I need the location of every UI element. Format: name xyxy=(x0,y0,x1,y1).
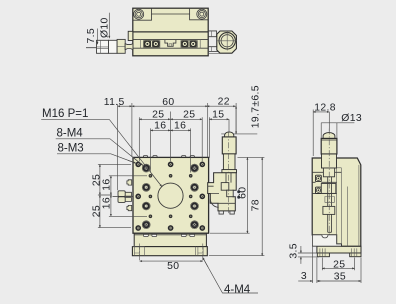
svg-text:22: 22 xyxy=(218,96,230,107)
front view: M4 counterbore R1 xyxy=(191,164,199,172)
front view: base block xyxy=(132,247,207,256)
side view: right foot xyxy=(350,253,361,257)
top view: knob circle outer xyxy=(219,33,235,49)
top view: center adjust notch xyxy=(165,40,176,47)
side view: step line xyxy=(337,167,342,169)
svg-text:12.8: 12.8 xyxy=(314,102,336,113)
front view: top rail bump 4 xyxy=(190,156,194,158)
top view: carriage bottom line xyxy=(133,47,208,49)
bracket: body main xyxy=(208,173,237,211)
front view: M4 counterbore R3 xyxy=(191,202,199,210)
top view: carriage outline box xyxy=(141,40,201,49)
top view: micrometer sleeve xyxy=(117,39,125,53)
dim 25 lower left xyxy=(99,195,101,228)
top view: right end block xyxy=(190,14,209,20)
front view: left stop pad tab lower xyxy=(127,205,132,210)
top view: slab split line xyxy=(133,31,208,33)
svg-text:15: 15 xyxy=(212,110,224,121)
bracket: spindle nut xyxy=(227,190,234,197)
front view: base right notch xyxy=(195,247,203,256)
front view: M4 counterbore L4 xyxy=(142,221,150,229)
svg-text:16: 16 xyxy=(102,197,113,209)
top view: right lower arm xyxy=(208,47,219,52)
svg-text:60: 60 xyxy=(238,187,249,199)
side view: bottom plate xyxy=(317,246,361,253)
side view: main body xyxy=(312,158,361,246)
top view: carriage pair plate left xyxy=(144,41,160,48)
dim 50 bottom xyxy=(140,260,203,262)
dim 7.5 line xyxy=(96,29,98,45)
top view: micrometer ratchet knob xyxy=(97,40,109,53)
front view: left adjuster screw upper xyxy=(125,192,131,196)
bracket: micrometer knob xyxy=(222,137,236,154)
front view: dowel pin row2 b xyxy=(189,195,193,199)
top view: carriage top line xyxy=(133,39,208,41)
side view: recess bump xyxy=(322,235,328,238)
svg-text:M16 P=1: M16 P=1 xyxy=(42,108,88,120)
right ext lines xyxy=(209,157,265,255)
dim 35 ext xyxy=(313,247,361,283)
dim 22 xyxy=(207,105,236,107)
top view: micrometer thimble xyxy=(109,40,118,53)
front view: top rail bump 1 xyxy=(143,156,147,158)
side view: spindle clamp block xyxy=(323,206,335,214)
top view: carriage clamp screw 2 xyxy=(152,41,159,47)
dim 25 left xyxy=(139,118,170,120)
dim 12.8 xyxy=(313,111,329,113)
top view: knob circle inner xyxy=(221,35,233,47)
dim 25 right xyxy=(170,118,202,120)
top view: carriage clamp screw 4 xyxy=(190,41,197,47)
front view: dowel pin row3 b xyxy=(169,215,173,219)
front view: M3 bottom-mid screw xyxy=(168,225,173,230)
front view: saddle top line xyxy=(134,234,206,236)
front view: saddle white notches xyxy=(144,234,149,236)
svg-text:25: 25 xyxy=(152,110,164,121)
bracket: spindle column xyxy=(226,173,231,183)
front view: left adjuster screw lower xyxy=(125,198,131,202)
front view: dowel pin row3 a xyxy=(149,215,153,219)
side view: spindle step xyxy=(325,197,335,203)
bracket: lower tabs xyxy=(219,211,234,214)
front view: dowel pin row2 a xyxy=(149,195,153,199)
side view: white recess under carriage xyxy=(312,235,341,246)
bracket: side screw dot upper xyxy=(237,190,240,193)
left ext lines xyxy=(98,164,147,227)
bracket: micrometer centerline xyxy=(228,132,230,214)
svg-text:8-M4: 8-M4 xyxy=(57,128,84,140)
dim dia13 leader xyxy=(321,122,354,124)
front view: top rail bump 3 xyxy=(182,156,186,158)
top view: carriage pair plate right xyxy=(181,41,197,48)
front view: M3 top-mid screw xyxy=(168,162,173,167)
top view: knob crosshair xyxy=(218,31,237,50)
dim 3.5 arrows xyxy=(300,246,302,253)
top view: knob block (chamfered) xyxy=(217,31,237,53)
svg-text:3.5: 3.5 xyxy=(288,243,299,259)
top view: carriage clamp screw 1 xyxy=(144,41,151,47)
svg-text:8-M3: 8-M3 xyxy=(58,143,84,155)
dim 25 upper left xyxy=(99,164,101,195)
front view: base mounting centerline left xyxy=(139,244,141,262)
svg-text:25: 25 xyxy=(333,259,345,270)
svg-text:4-M4: 4-M4 xyxy=(224,284,251,296)
side view: spindle column xyxy=(328,177,332,233)
bracket: micrometer flange xyxy=(222,170,237,173)
top view: left mount tab xyxy=(128,31,133,40)
front view: M3 corner screw TR xyxy=(200,162,205,167)
dim 16 lower left xyxy=(110,195,112,216)
front view: M4 counterbore L2 xyxy=(142,183,150,191)
front view: base left notch xyxy=(132,247,144,256)
front view: base mounting centerline right xyxy=(202,244,204,262)
bracket: fillet arc xyxy=(210,199,218,207)
svg-text:19.7±6.5: 19.7±6.5 xyxy=(251,85,262,128)
dim 3 xyxy=(298,280,312,282)
dim 11.5 xyxy=(118,105,132,107)
dim 15 xyxy=(209,118,229,120)
svg-text:50: 50 xyxy=(167,261,179,272)
front view: M3 corner screw BL xyxy=(136,225,141,230)
front view: top rail bump 2 xyxy=(153,156,157,158)
bracket: micrometer knob top cap xyxy=(225,132,234,137)
front view: saddle band xyxy=(134,233,206,246)
dim 35 xyxy=(317,280,361,282)
front view: dowel pin row1 a xyxy=(149,174,153,178)
side view: clamp screw lower xyxy=(316,187,322,193)
top view: carriage clamp screw 3 xyxy=(181,41,188,47)
side view: micrometer knob cap xyxy=(323,133,335,139)
front view: dowel pin row1 b xyxy=(169,174,173,178)
svg-text:16: 16 xyxy=(102,178,113,190)
front view: M3 corner screw BR xyxy=(200,225,205,230)
side view: column split lines xyxy=(337,158,359,246)
top view: main body slab xyxy=(133,8,208,56)
svg-text:3: 3 xyxy=(301,271,307,282)
front view: M3 corner screw TL xyxy=(136,162,141,167)
front view: M3 left-mid screw xyxy=(136,194,141,199)
svg-text:Ø13: Ø13 xyxy=(341,113,362,124)
svg-text:16: 16 xyxy=(174,121,186,132)
front view: M4 counterbore R2 xyxy=(191,183,199,191)
front view: center hole M16 xyxy=(158,183,183,208)
svg-text:25: 25 xyxy=(183,110,195,121)
front view: stage plate xyxy=(133,157,209,233)
dim 25 feet xyxy=(322,267,354,269)
svg-text:11.5: 11.5 xyxy=(104,97,125,108)
bracket: micrometer barrel xyxy=(223,154,235,170)
side view: micrometer centerline xyxy=(328,129,330,236)
top view: right cover screw (triple circle) xyxy=(197,9,207,19)
dim 16 left xyxy=(151,129,171,131)
svg-text:16: 16 xyxy=(154,121,166,132)
dim 16 right xyxy=(170,129,190,131)
svg-text:60: 60 xyxy=(162,97,174,108)
front view: M4 counterbore R4 xyxy=(191,221,199,229)
ext lines top row xyxy=(118,103,237,190)
side view: foot hole ticks left xyxy=(320,248,325,256)
front view: left stop pad tab xyxy=(127,180,132,185)
front view: dowel pin row3 c xyxy=(189,215,193,219)
svg-text:35: 35 xyxy=(334,272,346,283)
top view: micrometer neck xyxy=(125,44,133,50)
dim 19.7+-6.5 xyxy=(221,133,257,135)
side view: spindle bushing block xyxy=(321,184,336,194)
top view: right upper arm xyxy=(208,31,216,37)
side view: left foot xyxy=(317,253,329,257)
svg-text:7.5: 7.5 xyxy=(86,28,97,44)
front view: left adjuster centerline xyxy=(113,196,134,198)
side view: micrometer barrel xyxy=(322,154,337,168)
dim 78 right xyxy=(261,157,263,255)
bracket: inner steps xyxy=(208,173,236,204)
dim dia10 line xyxy=(108,13,110,39)
front view: M3 right-mid screw xyxy=(200,194,205,199)
dim 3.5 ext lines xyxy=(298,253,319,257)
front view: dowel pin row1 c xyxy=(189,174,193,178)
front view: M4 counterbore L3 xyxy=(142,202,150,210)
top view: left cover screw (triple circle) xyxy=(134,9,144,19)
front view: M4 counterbore L1 xyxy=(142,164,150,172)
dim 60 right xyxy=(246,157,248,233)
side view: clamp screw upper xyxy=(316,175,322,181)
dim 16 upper left xyxy=(110,176,112,195)
dim 60 top xyxy=(132,105,208,107)
top view: recessed middle top area xyxy=(152,8,190,14)
side ext lines xyxy=(313,110,329,157)
side view: bracket arm lines xyxy=(312,172,341,193)
side view: micrometer knob xyxy=(321,138,337,154)
side view: micrometer sleeve xyxy=(323,168,334,177)
svg-text:Ø10: Ø10 xyxy=(100,17,111,38)
bracket: side screw dot lower xyxy=(237,196,240,199)
dim 25 feet ext xyxy=(322,258,354,271)
bracket: spindle clamp block xyxy=(221,183,229,191)
top view: left end block xyxy=(133,14,152,20)
side view: foot hole ticks right xyxy=(352,248,357,256)
svg-text:78: 78 xyxy=(250,199,261,211)
